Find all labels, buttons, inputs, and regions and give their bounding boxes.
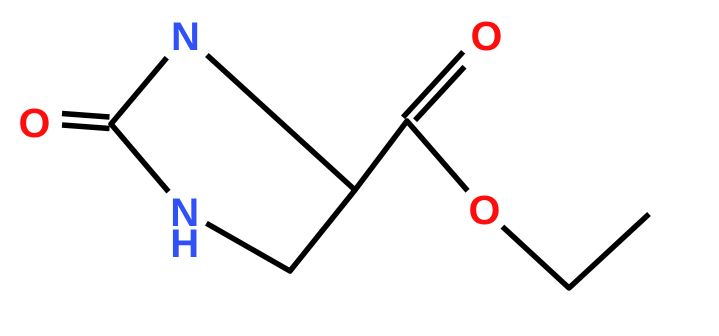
double bond Ccarb=O carbonyl line A (415, 67, 464, 121)
double bond Ccarb=O carbonyl line B (403, 52, 463, 118)
svg-text:O: O (19, 100, 51, 146)
wire bonds N3-C4-C5-C6-N1 (ring right side) (206, 55, 355, 271)
wire bonds Oether-CH2-CH3 (ethyl group) (502, 214, 649, 288)
svg-text:N: N (171, 15, 200, 59)
capacitor-like double bond C2=O ketone line B (62, 125, 110, 129)
wire bonds N3-C2-N1 (ring left side) (111, 58, 169, 192)
svg-text:O: O (471, 13, 503, 59)
svg-text:H: H (170, 222, 199, 266)
svg-text:O: O (469, 187, 501, 233)
wire bonds C5-Ccarb-Oether (ester link) (355, 121, 468, 191)
capacitor-like double bond C2=O ketone line A (62, 114, 110, 118)
